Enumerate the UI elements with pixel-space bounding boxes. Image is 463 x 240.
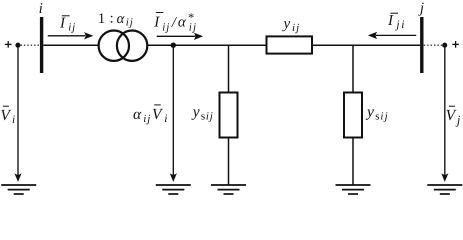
voltage arrow V_j xyxy=(441,48,448,182)
ground under alpha_ij V_i xyxy=(156,185,191,194)
svg-text:i: i xyxy=(126,17,129,29)
node dot (alpha_ij V_i node) xyxy=(171,43,176,48)
svg-text:y: y xyxy=(365,104,374,121)
label y_sij left xyxy=(191,104,213,123)
current arrow I_ji xyxy=(368,32,416,39)
transformer 1:alpha (two coils) xyxy=(99,31,148,61)
svg-text:i: i xyxy=(401,19,404,31)
dotted connector left xyxy=(21,44,40,46)
node dot left xyxy=(15,43,20,48)
label V_j xyxy=(446,106,461,127)
label y_ij xyxy=(282,16,300,34)
wire transformer to y_ij box xyxy=(147,44,267,46)
wire bus i to transformer xyxy=(43,44,98,46)
svg-text:α: α xyxy=(117,11,125,27)
svg-text:I: I xyxy=(387,13,394,29)
svg-text:i: i xyxy=(143,113,146,125)
svg-text:i: i xyxy=(292,22,295,34)
label I_ji xyxy=(387,13,404,31)
wire main to y_sij left xyxy=(228,45,230,92)
svg-text:i: i xyxy=(39,1,43,17)
current arrow I_ij xyxy=(48,32,94,39)
voltage arrow V_i xyxy=(14,48,21,182)
label y_sij right xyxy=(365,104,388,123)
svg-text:I: I xyxy=(153,15,160,31)
svg-text:*: * xyxy=(188,11,194,25)
svg-text:V: V xyxy=(446,107,457,124)
svg-text:i: i xyxy=(68,22,71,34)
svg-text:i: i xyxy=(164,113,167,125)
shunt admittance y_sij left xyxy=(220,93,238,138)
svg-text:1: 1 xyxy=(98,11,105,27)
svg-text::: : xyxy=(110,10,114,26)
node dot right xyxy=(442,43,447,48)
plus terminal right xyxy=(452,41,459,48)
svg-text:i: i xyxy=(12,114,15,126)
svg-text:y: y xyxy=(191,104,200,121)
svg-text:i: i xyxy=(380,111,383,123)
wire y_sij right to ground xyxy=(352,138,354,186)
shunt admittance y_sij right xyxy=(344,93,362,138)
wire y_sij left to ground xyxy=(228,138,230,186)
svg-text:s: s xyxy=(375,111,379,123)
ground under V_i xyxy=(1,185,36,194)
svg-text:I: I xyxy=(59,16,66,32)
svg-text:V: V xyxy=(0,107,11,124)
wire y_ij box to bus j xyxy=(312,44,420,46)
ground under y_sij right xyxy=(336,185,371,194)
label V_i xyxy=(0,106,15,126)
svg-text:V: V xyxy=(152,106,163,123)
wire main to y_sij right xyxy=(352,45,354,92)
ground under y_sij left xyxy=(211,185,246,194)
svg-text:j: j xyxy=(455,113,461,127)
plus terminal left xyxy=(5,41,12,48)
svg-text:j: j xyxy=(394,19,399,31)
bus bar i xyxy=(40,17,43,73)
bus bar j xyxy=(420,17,423,73)
dotted connector right xyxy=(424,44,442,46)
svg-text:i: i xyxy=(162,22,165,34)
voltage arrow alpha_ij V_i xyxy=(170,48,177,182)
resistor y_ij (series admittance) xyxy=(267,36,313,53)
label 1 : alpha_ij xyxy=(98,10,133,28)
svg-text:α: α xyxy=(133,106,142,123)
svg-text:y: y xyxy=(282,16,291,32)
label alpha_ij V_i xyxy=(133,105,167,125)
svg-text:i: i xyxy=(206,111,209,123)
current arrow I_ij/alpha* xyxy=(157,33,203,40)
svg-text:α: α xyxy=(178,15,187,31)
ground under V_j xyxy=(427,185,462,194)
svg-text:s: s xyxy=(201,111,205,123)
svg-text:/: / xyxy=(171,15,178,31)
label I_ij / alpha*_ij xyxy=(153,11,196,34)
svg-text:j: j xyxy=(418,1,424,17)
label I_ij xyxy=(59,16,75,34)
